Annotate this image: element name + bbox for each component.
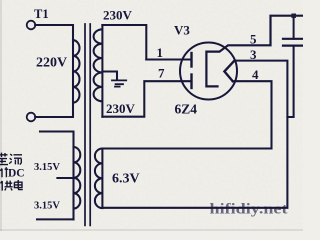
svg-text:6.3V: 6.3V: [112, 172, 140, 187]
winding 6.3V (4 loops): [95, 149, 102, 209]
svg-text:1: 1: [157, 45, 164, 60]
svg-text:6Z4: 6Z4: [175, 102, 198, 117]
svg-text:T1: T1: [34, 7, 49, 21]
terminal top-left: [27, 21, 36, 30]
heater wedge pins 3,4: [224, 61, 234, 82]
wire 3.15V bottom lead: [37, 218, 74, 220]
svg-text:hifidiy.net: hifidiy.net: [210, 202, 288, 218]
cathode with pin5 lead: [206, 16, 303, 87]
wire primary top: [35, 25, 73, 40]
ground: [112, 80, 126, 86]
流: [9, 154, 22, 165]
wire: [35, 40, 73, 117]
svg-text:3.15V: 3.15V: [34, 162, 60, 173]
capacitor C lead: [293, 16, 295, 39]
note text 整流 (hand-drawn glyphs, clipped at left edge): [0, 153, 22, 165]
anode plate pin1: [190, 53, 192, 67]
node junction top right: [291, 14, 296, 18]
capacitor bottom lead: [287, 46, 293, 117]
电: [14, 180, 22, 190]
capacitor plates: [283, 39, 303, 46]
note text 供电: [1, 180, 23, 191]
wire pin3 to bottom rail: [102, 61, 287, 208]
svg-text:3: 3: [250, 47, 257, 62]
anode plate pin7: [190, 75, 192, 89]
transformer core: [85, 24, 90, 225]
transformer primary winding 220V: [73, 40, 80, 102]
wire 3.15V center tap: [57, 177, 73, 179]
svg-text:V3: V3: [174, 23, 190, 38]
svg-text:3.15V: 3.15V: [34, 201, 60, 212]
winding 230V (HT secondary, 5 loops): [94, 25, 103, 117]
winding 3.15V x2 (4 loops): [74, 147, 81, 219]
svg-text:230V: 230V: [106, 101, 136, 116]
wire 3.15V top lead: [40, 132, 74, 148]
wire pin1: [146, 58, 191, 60]
svg-text:DC: DC: [8, 168, 25, 180]
svg-text:230V: 230V: [103, 8, 133, 23]
tube V3 envelope: [180, 43, 237, 100]
svg-text:220V: 220V: [36, 56, 67, 71]
wire secondary 230V top to node: [102, 25, 146, 60]
wire center tap: [102, 72, 117, 81]
svg-text:7: 7: [158, 66, 165, 81]
svg-text:4: 4: [252, 67, 259, 82]
note text 作DC: [0, 167, 8, 177]
wire 230V bottom to pin7: [102, 81, 191, 117]
wire pin4 to 6.3V top rail: [102, 81, 271, 148]
svg-text:5: 5: [250, 32, 257, 47]
terminal bottom-left: [27, 113, 36, 122]
